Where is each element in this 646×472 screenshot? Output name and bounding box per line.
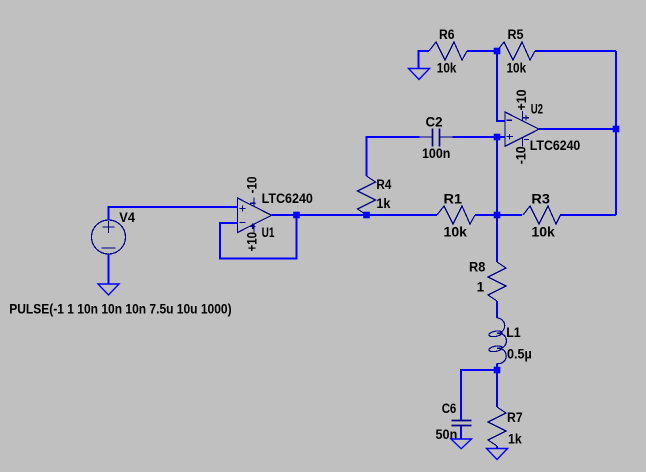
wire: R5 right to top-right corner <box>535 50 616 52</box>
junction at R4 bottom on main bus <box>363 212 370 219</box>
op-amp U2 V+ mark <box>523 115 529 121</box>
svg-text:50n: 50n <box>436 427 458 442</box>
svg-text:C6: C6 <box>442 401 457 416</box>
ground flag at C6 <box>451 439 472 449</box>
op-amp U1 inverting input mark <box>239 222 245 224</box>
resistor R4 <box>358 176 376 215</box>
op-amp U1 V+ mark <box>250 224 256 230</box>
svg-text:LTC6240: LTC6240 <box>530 138 581 153</box>
op-amp U2 V- pin stub <box>522 137 524 146</box>
junction at U2 + input <box>494 134 501 141</box>
svg-text:V4: V4 <box>119 210 135 225</box>
svg-text:R7: R7 <box>507 410 523 425</box>
svg-text:R8: R8 <box>469 260 486 275</box>
op-amp U1 triangle <box>238 198 272 233</box>
resistor R7 <box>488 407 506 446</box>
op-amp U1 V+ pin stub <box>253 224 255 233</box>
junction node N1 at R5/R6 <box>494 48 501 55</box>
junction at U1 output <box>293 212 300 219</box>
svg-text:1: 1 <box>477 280 485 295</box>
junction at bottom node <box>494 367 501 374</box>
ground flag at R7 <box>487 449 508 460</box>
svg-text:L1: L1 <box>506 325 521 340</box>
capacitor C6 <box>452 421 472 426</box>
wire: bottom node down to R7 <box>496 370 498 407</box>
wire: R6 to node N1 <box>467 50 497 52</box>
wire: R8 to L1 <box>496 301 498 318</box>
op-amp U2 inverting input mark <box>506 119 512 121</box>
op-amp U2 V+ pin stub <box>522 111 524 121</box>
wire: C2 left to R4 top <box>367 137 420 176</box>
resistor R3 <box>523 206 561 224</box>
wire: C2 right lead to U2 non-inverting input <box>453 136 506 138</box>
svg-text:10k: 10k <box>444 225 468 240</box>
svg-text:10k: 10k <box>507 60 527 75</box>
svg-text:C2: C2 <box>426 114 443 129</box>
resistor R6 <box>429 42 467 60</box>
svg-text:PULSE(-1 1 10n 10n 10n 7.5u 10: PULSE(-1 1 10n 10n 10n 7.5u 10u 1000) <box>9 301 231 317</box>
svg-text:+10: +10 <box>244 232 259 252</box>
svg-text:R6: R6 <box>439 27 455 42</box>
svg-text:-10: -10 <box>244 176 259 193</box>
wire: bottom of right rail to R3 <box>560 214 616 216</box>
svg-text:100n: 100n <box>422 146 450 161</box>
voltage source V4 plus mark <box>103 221 115 233</box>
junction at U2 output / right rail <box>613 126 620 133</box>
wire: L1 to bottom node <box>496 364 498 371</box>
wire: center node down to R8 <box>496 215 498 262</box>
svg-text:U1: U1 <box>262 225 275 240</box>
wire: C6 bottom lead <box>460 427 462 440</box>
op-amp U2 non-inverting input mark <box>506 134 513 140</box>
svg-text:-10: -10 <box>513 146 528 164</box>
svg-text:1k: 1k <box>376 196 390 211</box>
svg-text:R1: R1 <box>444 192 463 207</box>
resistor R8 <box>488 262 506 301</box>
ground flag at V4 <box>98 284 119 295</box>
svg-text:+10: +10 <box>514 90 529 111</box>
wire: bottom node left to C6 <box>461 370 497 420</box>
wire: main bus U1 output to R1 <box>272 214 438 216</box>
svg-text:0.5µ: 0.5µ <box>507 346 532 361</box>
capacitor C2 <box>420 129 453 147</box>
op-amp U1 V- mark <box>250 202 256 204</box>
wire: center node to R3 <box>497 214 522 216</box>
svg-text:LTC6240: LTC6240 <box>262 191 313 206</box>
wire: right vertical rail <box>615 51 617 215</box>
wire: U2 output to right rail <box>539 128 616 130</box>
wire: U2 + input node down to main bus <box>496 137 498 215</box>
op-amp U2 V- mark <box>524 139 529 141</box>
svg-text:R4: R4 <box>376 177 391 192</box>
ground flag at R6 <box>409 69 430 80</box>
resistor R5 <box>497 42 535 60</box>
op-amp U1 V- pin stub <box>253 198 255 207</box>
junction at center node <box>494 212 501 219</box>
wire: V4 bottom to ground <box>108 254 110 284</box>
wire: N1 down to U2 inverting input <box>497 51 505 121</box>
resistor R1 <box>437 206 475 224</box>
wire: R6 ground stub horizontal <box>419 51 430 69</box>
svg-text:R5: R5 <box>508 27 524 42</box>
op-amp U2 triangle <box>505 112 539 146</box>
op-amp U1 non-inverting input mark <box>239 205 245 211</box>
wire: R1 to center node <box>475 214 497 216</box>
svg-text:R3: R3 <box>531 192 550 207</box>
svg-text:10k: 10k <box>437 60 457 75</box>
voltage source V4 circle <box>92 220 126 254</box>
svg-text:1k: 1k <box>508 431 522 446</box>
wire: V4 top to U1 non-inverting input <box>109 207 238 221</box>
svg-text:U2: U2 <box>531 102 543 117</box>
wire: R7 to ground <box>496 446 498 449</box>
inductor L1 <box>488 318 506 364</box>
svg-text:10k: 10k <box>531 225 555 240</box>
wire: U1 feedback loop output to inverting input <box>220 215 297 259</box>
voltage source V4 minus mark <box>102 247 116 249</box>
